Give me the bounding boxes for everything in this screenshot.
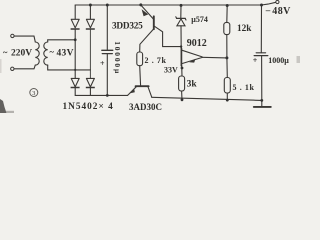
svg-text:3k: 3k — [187, 79, 198, 89]
svg-text:9012: 9012 — [187, 38, 207, 49]
svg-text:3AD30C: 3AD30C — [129, 102, 162, 112]
svg-text:1000μ: 1000μ — [268, 56, 289, 65]
svg-text:+: + — [253, 56, 258, 65]
svg-text:~: ~ — [3, 47, 8, 57]
svg-text:2 . 7k: 2 . 7k — [145, 56, 167, 65]
svg-text:~: ~ — [50, 46, 55, 56]
svg-text:10000μ: 10000μ — [113, 41, 122, 75]
svg-text:3DD325: 3DD325 — [112, 21, 143, 31]
svg-text:43V: 43V — [57, 48, 74, 58]
svg-text:–: – — [265, 5, 271, 15]
svg-text:1N5402× 4: 1N5402× 4 — [63, 102, 114, 112]
svg-text:5 . 1k: 5 . 1k — [233, 83, 255, 92]
svg-text:+: + — [100, 59, 105, 68]
svg-text:12k: 12k — [237, 24, 252, 34]
svg-text:μ574: μ574 — [191, 15, 208, 24]
svg-text:3: 3 — [32, 90, 35, 97]
svg-text:48V: 48V — [272, 6, 291, 17]
svg-text:33V: 33V — [164, 65, 178, 74]
svg-text:220V: 220V — [11, 49, 32, 59]
